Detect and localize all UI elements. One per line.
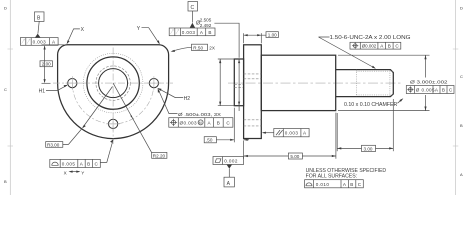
svg-text:B: B: [208, 30, 211, 35]
svg-text:0.003: 0.003: [285, 131, 299, 136]
front horizontal centerline: [53, 82, 173, 84]
svg-text:Y: Y: [81, 170, 84, 175]
boss dim connector: [214, 23, 239, 58]
svg-text:R2.20: R2.20: [153, 153, 166, 158]
thread end line dotted: [355, 70, 357, 97]
M modifier: [198, 120, 203, 125]
border zone ticks: [8, 48, 14, 50]
boss diameter dim line x220: [218, 58, 235, 60]
body cylinder side: [261, 55, 335, 110]
thread note leader: [319, 37, 375, 68]
svg-text:1.00: 1.00: [268, 33, 277, 38]
datum A stem: [228, 169, 230, 178]
profile FCF leader to arc bottom: [100, 140, 113, 162]
R.50 leader: [172, 47, 192, 51]
svg-text:Ø0.002: Ø0.002: [362, 44, 377, 49]
boss hidden center hole: [234, 83, 243, 85]
.50 extension line: [233, 108, 235, 143]
svg-text:0.005: 0.005: [62, 161, 76, 166]
H2 leader: [158, 89, 183, 98]
svg-text:D: D: [460, 6, 463, 11]
svg-text:FOR ALL SURFACES:: FOR ALL SURFACES:: [306, 174, 358, 180]
zone letters left: [4, 6, 7, 185]
parallelism leader: [263, 132, 274, 134]
svg-text:0.003: 0.003: [182, 30, 196, 35]
hub boss circle (datum C cylinder): [87, 57, 139, 109]
FCF position thread: [350, 42, 401, 49]
svg-text:B: B: [388, 44, 391, 49]
top edge extension line: [42, 44, 66, 46]
position symbol: [170, 119, 177, 126]
X leader: [67, 29, 80, 43]
bottom hole crosshair: [106, 123, 120, 125]
svg-text:H2: H2: [184, 96, 191, 102]
svg-text:R3.00: R3.00: [47, 142, 60, 147]
body diameter extension lines: [338, 54, 430, 56]
datum A triangle: [227, 165, 233, 169]
svg-text:2X: 2X: [209, 45, 215, 50]
datum C flag: [188, 2, 198, 12]
boss cylinder side: [234, 59, 243, 106]
thread minor line bottom: [356, 94, 393, 96]
FCF position holes: [169, 118, 233, 128]
thread minor line top: [356, 70, 393, 72]
svg-text:B: B: [460, 123, 463, 128]
hole H2: [149, 78, 158, 87]
svg-text:.50: .50: [206, 138, 213, 143]
dim 2.00 text: [40, 61, 52, 67]
svg-text:C: C: [460, 74, 463, 79]
svg-text:B: B: [350, 182, 353, 187]
FCF body diameter: [406, 86, 454, 94]
outer dotted circle: [83, 53, 143, 113]
chamfer leader: [398, 99, 403, 103]
svg-text:2.492: 2.492: [200, 23, 212, 28]
dim 1.00: [244, 34, 266, 36]
UOS FCF: [305, 180, 364, 188]
FCF runout C (0.003|A|B): [169, 28, 215, 36]
parallelism FCF: [274, 129, 309, 137]
svg-text:B: B: [4, 179, 7, 184]
threaded shaft side: [336, 70, 394, 97]
datum B triangle: [35, 34, 41, 38]
svg-text:5.00: 5.00: [290, 154, 299, 159]
bolt circle arc R2.20: [72, 83, 154, 124]
thread end dotted near chamfer: [389, 71, 391, 96]
datum B flag: [35, 12, 45, 22]
side view centerline: [228, 82, 401, 84]
svg-text:2.00: 2.00: [42, 62, 51, 67]
svg-text:2.505: 2.505: [200, 18, 212, 23]
hidden lines flange plate: [244, 73, 262, 75]
dim .50: [204, 137, 216, 143]
profile of surface symbol: [52, 162, 58, 165]
dim 3.00 extension lines: [336, 113, 338, 151]
R.50 box: [192, 44, 208, 50]
svg-text:3.00: 3.00: [364, 146, 373, 151]
boss diameter dim arrows: [238, 59, 240, 63]
svg-text:C: C: [191, 5, 195, 11]
H1 leader: [46, 85, 67, 90]
svg-text:D: D: [4, 6, 7, 11]
hole H1: [68, 78, 77, 87]
H1 extension line: [42, 82, 51, 84]
svg-text:Ø 0.005: Ø 0.005: [416, 87, 435, 92]
svg-text:1.50-6-UNC-2A x 2.00 LONG: 1.50-6-UNC-2A x 2.00 LONG: [330, 35, 411, 41]
svg-text:X: X: [64, 170, 67, 175]
svg-text:C: C: [4, 87, 7, 92]
svg-text:0.002: 0.002: [224, 159, 238, 164]
sheet border right: [455, 0, 457, 195]
svg-text:R.50: R.50: [193, 45, 203, 50]
FCF profile bottom (0.005 A B C): [50, 159, 101, 167]
datum C triangle: [190, 23, 196, 28]
inner bore circle: [99, 69, 128, 98]
flange plate side: [244, 45, 262, 139]
H1 crosshair: [66, 82, 80, 84]
svg-text:Ø0.003: Ø0.003: [180, 120, 198, 125]
R3.00 radius line from center: [83, 87, 113, 128]
H2 crosshair: [147, 82, 161, 84]
R2.20 box: [152, 152, 167, 158]
R2.20 radius leader from center to box: [113, 83, 152, 153]
leader B: [38, 21, 39, 33]
flatness FCF datum A: [213, 157, 244, 165]
dim 1.00 extension lines: [243, 33, 245, 43]
FCF runout B (0.003|A): [20, 38, 58, 46]
svg-text:B: B: [87, 161, 90, 166]
svg-text:Ø .500±.003, 3X: Ø .500±.003, 3X: [178, 112, 222, 118]
dim 3.00: [337, 147, 361, 149]
R3.00 box: [46, 142, 63, 148]
datum A box: [224, 177, 234, 187]
front vertical centerline: [112, 48, 114, 145]
dim 5.00 extension lines: [243, 141, 245, 159]
svg-text:0.10 x 0.10 CHAMFER: 0.10 x 0.10 CHAMFER: [344, 102, 398, 108]
svg-text:A: A: [460, 172, 463, 177]
svg-text:Ø 3.000±.002: Ø 3.000±.002: [410, 80, 448, 86]
R3.00 leader elbow: [63, 128, 82, 144]
zone letters right: [460, 6, 463, 178]
bottom hole: [108, 119, 117, 128]
sheet border left: [9, 0, 11, 195]
dim 2.00 line: [44, 46, 46, 82]
svg-text:H1: H1: [39, 89, 46, 95]
body diameter dim line: [425, 55, 427, 77]
svg-text:0.010: 0.010: [316, 182, 330, 187]
svg-text:B: B: [217, 120, 220, 125]
Y leader: [142, 28, 159, 44]
svg-text:0.003: 0.003: [33, 40, 47, 45]
front view flange outline: [58, 45, 169, 139]
dim 5.00: [244, 155, 289, 157]
holes note leader: [158, 90, 177, 114]
svg-text:B: B: [442, 87, 445, 92]
dashed thread circle: [96, 66, 130, 100]
svg-text:M: M: [199, 121, 202, 125]
leader C: [191, 11, 193, 23]
